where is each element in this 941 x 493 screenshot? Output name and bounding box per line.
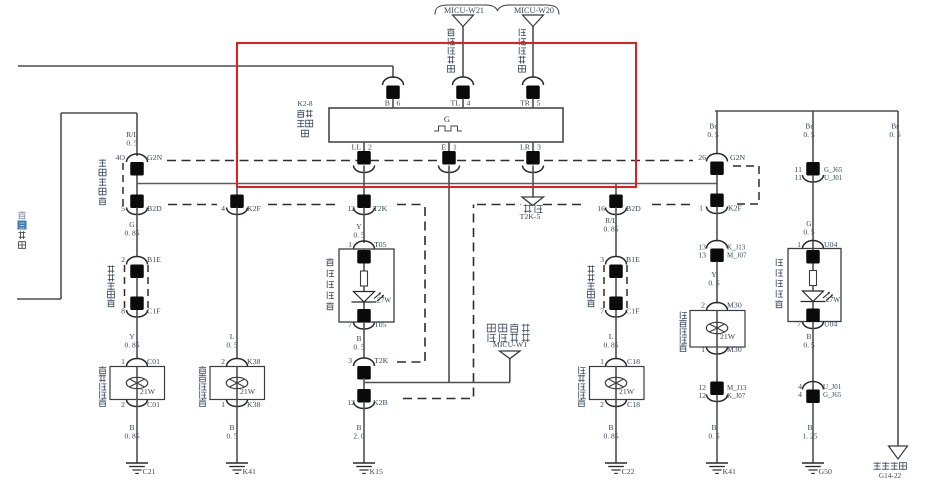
- connector 3-B1E: [606, 257, 627, 265]
- svg-text:13: 13: [698, 251, 706, 260]
- wire to flasher pin B: [18, 65, 393, 67]
- wire A4: [136, 310, 138, 359]
- svg-text:5: 5: [537, 99, 541, 108]
- svg-text:C01: C01: [147, 400, 160, 409]
- connector 2-B1E: [127, 257, 148, 265]
- terminal sq top U04: [806, 250, 820, 264]
- svg-text:2: 2: [600, 400, 604, 409]
- wire E3: [615, 278, 617, 297]
- connector 2-M30: [707, 303, 728, 311]
- svg-text:M30: M30: [727, 345, 742, 354]
- svg-text:M30: M30: [727, 301, 742, 310]
- wire LR down: [532, 166, 534, 198]
- svg-text:4: 4: [467, 99, 471, 108]
- connector arrow T2K-5 reserved: [522, 197, 543, 206]
- ground C22: [605, 462, 627, 464]
- svg-text:0. 5: 0. 5: [226, 432, 238, 441]
- svg-text:G_J65: G_J65: [823, 391, 842, 399]
- svg-text:C1F: C1F: [626, 307, 640, 316]
- svg-text:B1E: B1E: [147, 255, 161, 264]
- svg-text:E: E: [441, 143, 446, 152]
- svg-text:8: 8: [121, 307, 125, 316]
- lamp left front 21W: [126, 377, 147, 388]
- svg-text:U_J01: U_J01: [824, 174, 843, 182]
- svg-text:12: 12: [347, 398, 355, 407]
- svg-text:G50: G50: [819, 467, 833, 476]
- svg-text:11: 11: [794, 173, 802, 182]
- svg-text:1: 1: [797, 240, 801, 249]
- connector 2-C18: [606, 400, 627, 407]
- connector 1-T05: [354, 241, 375, 249]
- lamp box right rear: [690, 311, 745, 348]
- relay K2-8 box: [329, 108, 563, 142]
- svg-text:MICU-W21: MICU-W21: [444, 6, 484, 15]
- dashed bus 2 seg1: [168, 204, 217, 206]
- wire E-pin down: [448, 166, 450, 383]
- terminal sq top T05: [357, 250, 371, 264]
- wire A2: [136, 208, 138, 258]
- svg-text:B: B: [385, 99, 390, 108]
- svg-text:0. 5: 0. 5: [226, 341, 238, 350]
- wire left-turn-signal: [462, 27, 464, 78]
- svg-text:0. 5: 0. 5: [889, 130, 901, 139]
- svg-text:21W: 21W: [240, 387, 256, 396]
- svg-text:K2B: K2B: [373, 398, 388, 407]
- ground K15: [353, 462, 375, 464]
- wire F4: [716, 311, 718, 348]
- svg-text:1: 1: [221, 400, 225, 409]
- svg-text:2: 2: [368, 143, 372, 152]
- connector pin B6 (arc+pin): [383, 77, 404, 85]
- label right rear turn lamp: [680, 312, 687, 320]
- svg-text:1: 1: [600, 357, 604, 366]
- dashed bus 2 seg3: [397, 204, 425, 206]
- dashed drop to 3-T2K: [397, 205, 425, 363]
- svg-text:0. 5: 0. 5: [126, 139, 138, 148]
- svg-text:T05: T05: [374, 320, 387, 329]
- svg-text:0. 85: 0. 85: [125, 341, 140, 350]
- connector 11-G_J65/U_J01: [806, 162, 820, 176]
- label instrument panel box: [99, 159, 106, 167]
- dashed bracket F: [733, 166, 759, 204]
- connector 4-U_J01/G_J65: [803, 382, 824, 390]
- wire E5: [615, 367, 617, 400]
- svg-text:C18: C18: [627, 357, 640, 366]
- lamp right rear 21W: [706, 322, 727, 333]
- svg-text:2: 2: [121, 255, 125, 264]
- wire B4: [236, 400, 238, 464]
- wire G3: [812, 322, 814, 390]
- svg-text:U_J01: U_J01: [823, 383, 842, 391]
- label reserved T2K-5: [524, 204, 532, 213]
- connector pin TR5 (arc+pin): [523, 77, 544, 85]
- svg-text:12: 12: [698, 391, 706, 400]
- svg-text:3: 3: [537, 143, 541, 152]
- wire right-turn-signal: [532, 27, 534, 78]
- wire F5: [716, 347, 718, 382]
- svg-text:T2K-5: T2K-5: [520, 212, 541, 221]
- svg-text:26: 26: [698, 153, 706, 162]
- svg-text:G2N: G2N: [730, 153, 746, 162]
- wire G4: [812, 403, 814, 464]
- svg-text:1. 25: 1. 25: [803, 432, 818, 441]
- svg-text:0. 5: 0. 5: [708, 432, 720, 441]
- dashed bus 2 seg4: [477, 204, 521, 206]
- svg-text:4: 4: [221, 204, 225, 213]
- lamp box left rear: [210, 367, 265, 400]
- svg-text:2. 0: 2. 0: [353, 432, 365, 441]
- svg-text:16: 16: [597, 204, 605, 213]
- dashed drop to 12-K2B: [403, 205, 474, 399]
- svg-text:C21: C21: [143, 467, 156, 476]
- svg-text:G: G: [444, 114, 450, 124]
- wire A5: [136, 367, 138, 400]
- label left rear turn lamp: [199, 366, 206, 374]
- svg-text:M_J07: M_J07: [727, 252, 747, 260]
- connector 40-G2N: [127, 154, 148, 162]
- svg-text:3: 3: [600, 255, 604, 264]
- wire E4: [615, 310, 617, 359]
- main feed wire: [137, 183, 717, 185]
- svg-text:TL: TL: [450, 99, 460, 108]
- connector 3-T2K: [354, 358, 375, 366]
- svg-text:U04: U04: [824, 240, 838, 249]
- connector 7-T05: [354, 322, 375, 329]
- svg-text:21W: 21W: [619, 387, 635, 396]
- connector 16-B2D: [609, 195, 623, 209]
- svg-text:K_J13: K_J13: [727, 244, 746, 252]
- ground K41 left: [226, 462, 248, 464]
- dashed edge instrument box: [122, 163, 124, 206]
- svg-text:0. 5: 0. 5: [803, 130, 815, 139]
- connector 1-U04: [803, 241, 824, 249]
- ground G50: [802, 462, 824, 464]
- connector 1-C18: [606, 359, 627, 367]
- svg-text:1: 1: [701, 345, 705, 354]
- svg-text:C1F: C1F: [147, 307, 161, 316]
- dashed bus 2 seg6: [652, 204, 693, 206]
- svg-text:0. 5: 0. 5: [803, 228, 815, 237]
- svg-text:M_J13: M_J13: [727, 384, 747, 392]
- svg-text:0. 85: 0. 85: [125, 229, 140, 238]
- wire F2: [716, 207, 718, 242]
- svg-text:12: 12: [347, 204, 355, 213]
- ground K41 right: [706, 462, 728, 464]
- label front cabin box A: [107, 265, 114, 273]
- label front cabin box E: [587, 265, 594, 273]
- connector 4-K2F: [230, 195, 244, 209]
- svg-text:G14-22: G14-22: [879, 471, 902, 480]
- wire C1: [363, 166, 365, 195]
- connector arrow MICU-W1: [500, 351, 521, 359]
- connector 1-K2F: [710, 194, 724, 208]
- svg-text:7: 7: [600, 307, 604, 316]
- wire Br feed: [715, 110, 898, 112]
- svg-text:G2N: G2N: [147, 153, 163, 162]
- svg-text:2: 2: [221, 357, 225, 366]
- svg-text:4: 4: [798, 390, 802, 399]
- connector 2-C01: [127, 400, 148, 407]
- svg-text:G_J65: G_J65: [824, 166, 843, 174]
- wire E6: [615, 400, 617, 464]
- led right side lamp: [810, 271, 817, 286]
- svg-text:0. 85: 0. 85: [604, 341, 619, 350]
- wire C4: [363, 322, 365, 359]
- connector pin LR3 (pin+arc): [532, 142, 534, 151]
- connector pin LL2 (pin+arc): [363, 142, 365, 151]
- connector pin E1 (pin+arc): [448, 142, 450, 151]
- svg-text:U04: U04: [824, 320, 838, 329]
- label right side turn lamp: [776, 259, 783, 267]
- svg-text:27W: 27W: [826, 296, 840, 304]
- svg-text:7: 7: [797, 320, 801, 329]
- svg-text:0. 5: 0. 5: [353, 343, 365, 352]
- connector arrow G14-22: [889, 446, 908, 459]
- lamp box left front: [110, 367, 165, 400]
- wire B3: [236, 367, 238, 400]
- terminal sq bottom T05: [357, 309, 371, 323]
- connector 13-K_J13/M_J07: [707, 241, 728, 249]
- svg-text:1: 1: [453, 143, 457, 152]
- connector 12-K2B: [357, 389, 371, 403]
- svg-text:1: 1: [348, 240, 352, 249]
- dashed bus 1: [167, 160, 693, 162]
- svg-text:0. 5: 0. 5: [353, 231, 365, 240]
- wire E2: [615, 208, 617, 258]
- svg-text:4O: 4O: [115, 153, 125, 162]
- svg-text:21W: 21W: [720, 332, 736, 341]
- svg-text:K38: K38: [247, 357, 261, 366]
- svg-text:2: 2: [121, 400, 125, 409]
- wire G1: [812, 175, 814, 249]
- wire C2: [363, 208, 365, 244]
- lamp box left side: [339, 249, 394, 322]
- svg-text:B1E: B1E: [626, 255, 640, 264]
- net label right-turn-signal: [519, 29, 526, 37]
- svg-text:B2D: B2D: [626, 204, 641, 213]
- label right front turn lamp: [579, 367, 586, 375]
- connector 1-M30: [707, 347, 728, 354]
- svg-text:0. 5: 0. 5: [708, 279, 720, 288]
- svg-text:T2K: T2K: [373, 204, 388, 213]
- terminal sq bottom U04: [806, 309, 820, 323]
- wire F3: [716, 262, 718, 304]
- svg-text:MICU-W20: MICU-W20: [514, 6, 554, 15]
- led left side lamp: [361, 271, 368, 286]
- connector 26-G2N: [707, 154, 728, 162]
- dashed box front cabin A: [124, 265, 126, 310]
- wire to MICU-W1: [364, 382, 510, 384]
- svg-text:K2-8: K2-8: [298, 99, 313, 108]
- connector 8-C1F: [130, 297, 144, 311]
- wire G2: [812, 249, 814, 322]
- svg-text:TR: TR: [520, 99, 531, 108]
- svg-text:1: 1: [699, 204, 703, 213]
- svg-text:2: 2: [701, 301, 705, 310]
- svg-text:C01: C01: [147, 357, 160, 366]
- lamp box right side: [788, 249, 841, 322]
- lamp right front 21W: [605, 377, 626, 388]
- label left switch (blue highlight): [18, 211, 25, 219]
- connector 7-C1F E: [609, 297, 623, 311]
- connector 5-B2D: [130, 195, 144, 209]
- svg-text:B2D: B2D: [147, 204, 162, 213]
- label left front turn lamp: [99, 366, 106, 374]
- connector 12-M_J13/K_J07: [710, 382, 724, 396]
- red highlight box: [237, 43, 636, 187]
- svg-text:6: 6: [397, 99, 401, 108]
- svg-text:K2F: K2F: [728, 204, 743, 213]
- dashed box front cabin E: [603, 265, 605, 310]
- dashed bus 2 seg5: [543, 204, 586, 206]
- wire B1: [236, 184, 238, 195]
- svg-text:K_J07: K_J07: [727, 392, 746, 400]
- lamp left rear 21W: [226, 377, 247, 388]
- connector 7-U04: [803, 322, 824, 329]
- svg-text:T2K: T2K: [374, 356, 389, 365]
- svg-text:0. 85: 0. 85: [604, 225, 619, 234]
- connector 12-T2K: [357, 195, 371, 209]
- svg-text:K15: K15: [370, 467, 384, 476]
- svg-text:T05: T05: [374, 240, 387, 249]
- svg-text:K38: K38: [247, 400, 261, 409]
- wire from left switch to col A: [17, 298, 61, 300]
- wire B2: [236, 208, 238, 360]
- wire C6: [363, 402, 365, 464]
- svg-text:0. 85: 0. 85: [125, 432, 140, 441]
- svg-text:21W: 21W: [140, 387, 156, 396]
- svg-text:MICU-W1: MICU-W1: [493, 340, 527, 349]
- label left side turn lamp: [326, 258, 333, 266]
- svg-text:LR: LR: [520, 143, 531, 152]
- wire F1: [716, 175, 718, 194]
- svg-text:K41: K41: [723, 467, 737, 476]
- net label left-turn-signal: [447, 28, 454, 36]
- module brace MICU boundary: [435, 5, 559, 15]
- wire A6: [136, 400, 138, 464]
- wire C3: [363, 249, 365, 322]
- ground C21: [126, 462, 148, 464]
- connector arrow MICU-W21: [453, 15, 474, 27]
- wire A1: [136, 175, 138, 195]
- svg-text:1: 1: [121, 357, 125, 366]
- connector 1-C01: [127, 359, 148, 367]
- svg-text:0. 5: 0. 5: [707, 130, 719, 139]
- svg-text:27W: 27W: [377, 297, 391, 305]
- connector arrow MICU-W20: [523, 15, 544, 27]
- dashed bus 2 seg2: [268, 204, 339, 206]
- wire F6: [716, 395, 718, 464]
- wire C5: [363, 378, 365, 389]
- svg-text:0. 85: 0. 85: [604, 432, 619, 441]
- label MICU-W1 module: [487, 324, 495, 332]
- label combination meter G14-22: [873, 462, 880, 470]
- svg-text:3: 3: [348, 356, 352, 365]
- lamp box right front: [590, 367, 645, 400]
- wire A3: [136, 278, 138, 297]
- svg-text:0. 5: 0. 5: [803, 341, 815, 350]
- svg-text:C18: C18: [627, 400, 640, 409]
- svg-text:7: 7: [348, 320, 352, 329]
- connector 2-K38: [227, 359, 248, 367]
- connector pin TL4 (arc+pin): [453, 77, 474, 85]
- svg-text:K2F: K2F: [247, 204, 262, 213]
- relay pulse symbol: [434, 126, 462, 131]
- wire E1: [615, 184, 617, 195]
- svg-text:K41: K41: [243, 467, 257, 476]
- svg-text:C22: C22: [622, 467, 635, 476]
- svg-text:LL: LL: [351, 143, 361, 152]
- connector 1-K38: [227, 400, 248, 407]
